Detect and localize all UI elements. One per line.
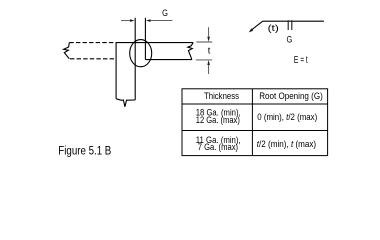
left member break line [64,43,70,59]
svg-text:Root Opening (G): Root Opening (G) [259,91,323,101]
svg-text:t: t [208,45,211,56]
t dimension bottom extension line [196,59,212,61]
G dimension left arrowhead [130,19,135,22]
joint detail circle [130,40,152,67]
svg-text:E = t: E = t [294,55,308,66]
table outer border [182,89,328,156]
table column divider [251,89,253,156]
svg-text:7 Ga. (max): 7 Ga. (max) [198,142,238,152]
svg-text:G: G [162,8,168,18]
left member top hidden line (dashed) [69,42,116,44]
G dimension right arrowhead [146,19,151,22]
G dimension right arrow line [151,20,173,22]
svg-text:Figure 5.1 B: Figure 5.1 B [58,143,111,157]
weld symbol arrowhead [249,28,254,32]
left member bottom hidden line (dashed) [70,58,116,60]
svg-text:12 Ga. (max): 12 Ga. (max) [196,115,240,125]
right member left end edge / G right extension line [144,18,146,60]
top surface line [116,42,193,44]
svg-text:0 (min), t/2 (max): 0 (min), t/2 (max) [257,111,317,122]
svg-text:G: G [287,35,293,45]
table header divider [182,103,328,105]
G dimension left arrow line [121,20,130,22]
svg-text:(t): (t) [268,23,279,33]
right member break line [188,43,193,60]
t dimension top extension line [196,41,212,43]
weld symbol reference line [263,20,324,22]
right member bottom edge [145,59,192,61]
table row divider [182,130,328,132]
t dimension down arrow [208,27,210,36]
vertical plate left edge [115,43,117,99]
square groove weld symbol ticks [288,20,292,30]
t dimension up arrow [208,65,210,74]
vertical plate right edge / G left extension line [134,18,136,100]
vertical plate bottom break line [116,99,135,107]
svg-text:Thickness: Thickness [204,91,240,101]
svg-text:t/2 (min), t (max): t/2 (min), t (max) [257,138,316,148]
weld symbol leader line [251,21,263,30]
